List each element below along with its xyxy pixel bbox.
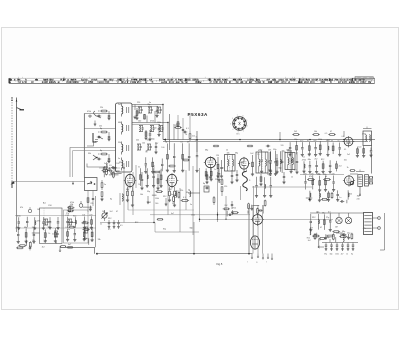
svg-text:33k: 33k [118,142,121,144]
svg-text:22k: 22k [113,169,116,171]
svg-text:82p: 82p [73,215,76,217]
svg-text:470k: 470k [362,134,366,136]
svg-text:C34: C34 [48,205,51,207]
svg-text:10k: 10k [140,194,143,196]
svg-text:47k: 47k [363,228,366,230]
svg-text:5n: 5n [172,203,174,205]
svg-text:R12: R12 [233,208,236,210]
svg-text:2k2: 2k2 [175,190,178,192]
svg-text:4: 4 [233,129,234,131]
svg-text:47: 47 [307,140,309,142]
svg-text:68p: 68p [279,167,282,169]
svg-text:R12: R12 [312,217,315,219]
svg-text:470k: 470k [302,159,306,161]
svg-text:47: 47 [116,211,118,213]
svg-text:50: 50 [150,131,152,133]
svg-text:1n: 1n [339,197,341,199]
svg-text:82p: 82p [330,254,333,256]
svg-text:82p: 82p [163,228,166,230]
svg-text:220: 220 [89,214,92,216]
svg-text:0.5: 0.5 [328,212,331,214]
svg-text:47: 47 [313,236,315,238]
svg-text:68p: 68p [24,227,27,229]
svg-text:8p: 8p [100,128,102,130]
svg-text:100: 100 [102,211,105,213]
svg-text:0.5: 0.5 [120,225,123,227]
svg-text:2n2: 2n2 [118,104,121,106]
svg-text:0.5: 0.5 [221,168,224,170]
svg-text:C34: C34 [212,159,215,161]
svg-text:0.1: 0.1 [303,157,306,159]
svg-text:10k: 10k [82,215,85,217]
svg-text:33k: 33k [32,227,35,229]
svg-text:8p: 8p [110,198,112,200]
svg-text:68p: 68p [322,213,325,215]
svg-text:33k: 33k [98,239,101,241]
svg-text:2k2: 2k2 [294,131,297,133]
svg-text:2n2: 2n2 [192,136,195,138]
svg-text:4n7: 4n7 [300,140,303,142]
svg-text:10k: 10k [286,149,289,151]
svg-text:120: 120 [281,145,284,147]
svg-text:47: 47 [331,141,333,143]
svg-text:8p: 8p [165,142,167,144]
svg-text:27p: 27p [326,217,329,219]
svg-text:1k: 1k [226,150,228,152]
svg-text:2n2: 2n2 [70,205,73,207]
svg-text:22k: 22k [195,140,198,142]
svg-text:82p: 82p [294,139,297,141]
svg-text:2n2: 2n2 [52,234,55,236]
svg-text:P5X63A: P5X63A [188,112,209,117]
svg-text:100: 100 [37,209,40,211]
svg-text:220: 220 [303,174,306,176]
svg-text:22k: 22k [136,140,139,142]
svg-text:2k2: 2k2 [107,161,110,163]
svg-text:1n: 1n [104,184,106,186]
svg-text:47: 47 [330,131,332,133]
svg-text:68p: 68p [235,153,238,155]
svg-text:2k2: 2k2 [188,193,191,195]
svg-text:4n7: 4n7 [341,254,344,256]
svg-text:150k: 150k [335,254,339,256]
svg-text:82p: 82p [152,138,155,140]
svg-text:10k: 10k [227,152,230,154]
svg-text:50: 50 [138,184,140,186]
svg-text:2k2: 2k2 [224,205,227,207]
svg-text:2n2: 2n2 [339,166,342,168]
svg-text:22k: 22k [100,107,103,109]
svg-text:1n: 1n [68,229,70,231]
svg-text:R12: R12 [307,238,310,240]
svg-text:8: 8 [243,116,244,118]
svg-text:4n7: 4n7 [310,228,313,230]
svg-text:5n: 5n [338,141,340,143]
svg-text:22k: 22k [180,190,183,192]
svg-text:100: 100 [161,147,164,149]
svg-text:0.5: 0.5 [108,229,111,231]
svg-text:27p: 27p [317,174,320,176]
svg-text:10k: 10k [142,142,145,144]
svg-text:10k: 10k [32,240,35,242]
svg-text:220: 220 [137,102,140,104]
svg-text:240: 240 [357,199,360,201]
svg-text:0.1: 0.1 [183,197,186,199]
svg-text:68p: 68p [205,150,208,152]
svg-text:68p: 68p [126,189,129,191]
svg-text:2n2: 2n2 [327,140,330,142]
svg-text:2n2: 2n2 [110,211,113,213]
svg-text:2n2: 2n2 [313,140,316,142]
svg-text:1k: 1k [291,177,293,179]
svg-text:1: 1 [247,126,248,128]
svg-text:150k: 150k [17,216,21,218]
svg-text:4n7: 4n7 [308,153,311,155]
svg-text:47k: 47k [268,150,271,152]
svg-text:470k: 470k [37,221,41,223]
svg-text:47k: 47k [309,176,312,178]
svg-text:220: 220 [331,174,334,176]
svg-text:15k: 15k [110,170,113,172]
svg-text:8p: 8p [100,150,102,152]
svg-text:1n: 1n [155,128,157,130]
svg-text:4n7: 4n7 [187,142,190,144]
svg-text:4n7: 4n7 [68,244,71,246]
svg-text:27p: 27p [66,213,69,215]
svg-text:0.5: 0.5 [325,133,328,135]
svg-text:82p: 82p [104,167,107,169]
svg-text:27p: 27p [358,178,361,180]
svg-text:10k: 10k [314,131,317,133]
svg-text:C34: C34 [65,215,68,217]
svg-text:I: I [266,262,267,264]
svg-text:39p: 39p [147,191,150,193]
svg-text:O: O [256,262,258,264]
svg-text:4n7: 4n7 [171,213,174,215]
svg-text:100: 100 [344,159,347,161]
svg-text:I: I [247,262,248,264]
svg-text:0.1: 0.1 [344,149,347,151]
svg-text:R12: R12 [163,196,166,198]
svg-text:1k: 1k [196,137,198,139]
svg-text:39p: 39p [340,234,343,236]
svg-text:0.5: 0.5 [342,136,345,138]
svg-text:39p: 39p [357,195,360,197]
svg-text:33k: 33k [135,115,138,117]
svg-text:68p: 68p [342,231,345,233]
svg-text:6: 6 [232,118,233,120]
svg-text:2n2: 2n2 [347,154,350,156]
svg-text:1n: 1n [100,224,102,226]
svg-text:2k2: 2k2 [314,159,317,161]
svg-text:470k: 470k [175,125,179,127]
svg-text:8p: 8p [328,237,330,239]
svg-text:4n7: 4n7 [155,143,158,145]
svg-text:470k: 470k [70,202,74,204]
svg-text:560: 560 [48,227,51,229]
svg-text:27p: 27p [347,232,350,234]
svg-text:A: A [56,242,58,245]
svg-text:1n: 1n [214,169,216,171]
svg-text:68p: 68p [308,159,311,161]
svg-text:1k: 1k [346,254,348,256]
svg-text:2: 2 [243,130,244,132]
svg-text:82p: 82p [273,149,276,151]
svg-text:15k: 15k [90,227,93,229]
svg-text:R12: R12 [135,222,138,224]
svg-text:68p: 68p [190,227,193,229]
svg-text:470k: 470k [150,121,154,123]
svg-text:1k: 1k [347,167,349,169]
svg-text:39p: 39p [324,254,327,256]
svg-text:5n: 5n [118,158,120,160]
svg-text:120: 120 [224,186,227,188]
svg-text:470k: 470k [87,111,91,113]
svg-text:2n2: 2n2 [250,153,253,155]
svg-text:1n: 1n [319,240,321,242]
svg-text:680: 680 [118,122,121,124]
svg-text:100: 100 [275,159,278,161]
svg-text:15k: 15k [276,171,279,173]
svg-text:2n2: 2n2 [308,240,311,242]
svg-text:150k: 150k [318,139,322,141]
svg-text:1k: 1k [48,233,50,235]
svg-text:47k: 47k [20,207,23,209]
svg-text:100: 100 [138,121,141,123]
svg-text:R12: R12 [119,162,122,164]
svg-text:50: 50 [185,134,187,136]
svg-text:39p: 39p [147,104,150,106]
svg-text:50: 50 [325,176,327,178]
svg-text:8p: 8p [203,183,205,185]
svg-text:1n: 1n [257,154,259,156]
svg-text:R12: R12 [108,218,111,220]
svg-text:8p: 8p [351,254,353,256]
svg-text:5n: 5n [104,163,106,165]
svg-text:Fig.5: Fig.5 [217,262,223,266]
svg-text:5n: 5n [190,204,192,206]
svg-text:5n: 5n [145,152,147,154]
svg-text:0.1: 0.1 [181,142,184,144]
svg-text:R12: R12 [321,159,324,161]
svg-text:33k: 33k [88,153,91,155]
svg-text:150k: 150k [191,215,195,217]
svg-text:S: S [249,180,251,182]
svg-text:5n: 5n [138,166,140,168]
svg-text:5n: 5n [240,164,242,166]
svg-text:120: 120 [216,155,219,157]
svg-text:9: 9 [246,120,247,122]
svg-text:15k: 15k [99,126,102,128]
svg-text:0.5: 0.5 [109,165,112,167]
svg-text:2k2: 2k2 [42,246,45,248]
svg-text:C34: C34 [168,189,171,191]
svg-text:1k: 1k [348,142,350,144]
svg-text:47: 47 [316,211,318,213]
svg-text:B 5: B 5 [237,134,241,136]
svg-text:27p: 27p [282,151,285,153]
svg-text:150k: 150k [157,122,161,124]
svg-text:220: 220 [267,174,270,176]
svg-text:4n7: 4n7 [294,169,297,171]
svg-text:5: 5 [230,124,231,126]
svg-text:120: 120 [349,194,352,196]
svg-text:1M: 1M [335,227,338,229]
svg-text:150k: 150k [155,198,159,200]
svg-text:47: 47 [320,227,322,229]
svg-text:4n7: 4n7 [171,194,174,196]
svg-text:0.1: 0.1 [186,128,189,130]
svg-text:560: 560 [155,203,158,205]
svg-text:A1: A1 [43,202,46,205]
svg-text:120: 120 [358,147,361,149]
svg-text:7: 7 [237,115,238,117]
